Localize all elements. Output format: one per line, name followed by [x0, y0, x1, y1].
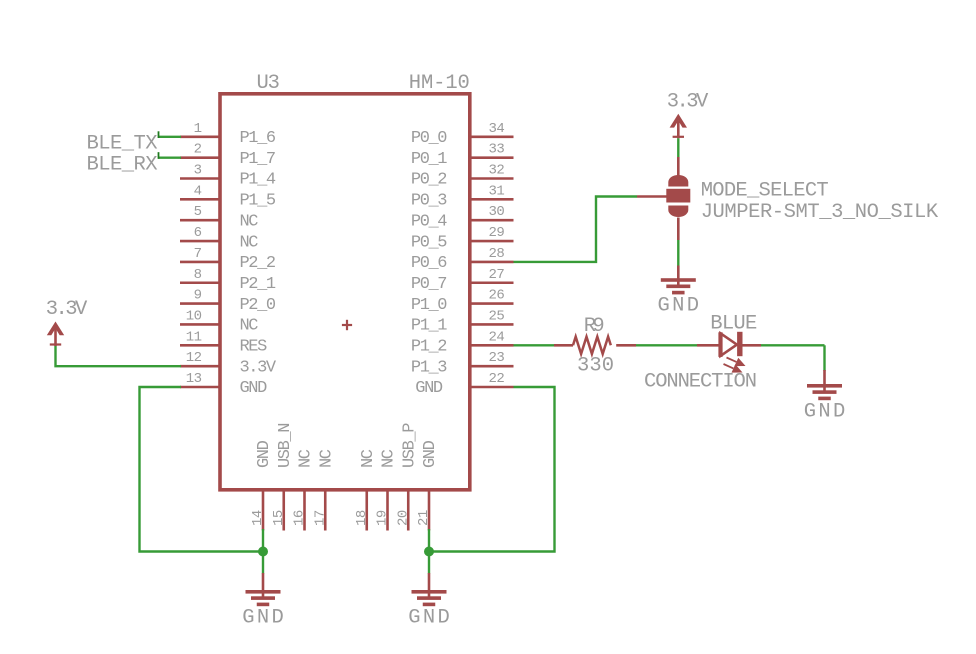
svg-text:30: 30 [489, 204, 505, 220]
svg-text:10: 10 [186, 308, 202, 324]
svg-text:NC: NC [240, 212, 259, 231]
svg-text:USB_P: USB_P [400, 423, 419, 468]
svg-text:BLE_RX: BLE_RX [87, 153, 158, 176]
svg-text:16: 16 [292, 510, 308, 526]
svg-text:MODE_SELECT: MODE_SELECT [701, 180, 829, 203]
svg-text:33: 33 [489, 142, 505, 158]
svg-text:13: 13 [186, 371, 202, 387]
svg-text:P0_0: P0_0 [411, 129, 447, 148]
svg-text:JUMPER-SMT_3_NO_SILK: JUMPER-SMT_3_NO_SILK [701, 201, 939, 224]
svg-text:GND: GND [240, 379, 268, 398]
svg-text:P1_1: P1_1 [411, 317, 447, 336]
svg-text:P1_5: P1_5 [240, 192, 276, 211]
svg-text:P2_0: P2_0 [240, 296, 276, 315]
svg-text:P0_5: P0_5 [411, 233, 447, 252]
svg-text:3.3V: 3.3V [667, 90, 709, 113]
svg-text:GND: GND [804, 401, 846, 424]
svg-text:NC: NC [240, 233, 259, 252]
svg-text:330: 330 [577, 355, 614, 378]
svg-text:26: 26 [489, 288, 505, 304]
svg-text:USB_N: USB_N [276, 424, 295, 468]
svg-text:GND: GND [408, 607, 450, 630]
svg-text:P0_1: P0_1 [411, 150, 447, 169]
svg-text:NC: NC [240, 317, 259, 336]
svg-text:3.3V: 3.3V [46, 298, 88, 321]
svg-text:P2_2: P2_2 [240, 254, 275, 273]
svg-text:34: 34 [489, 121, 505, 137]
svg-text:19: 19 [375, 510, 391, 526]
svg-text:6: 6 [194, 225, 202, 241]
svg-text:GND: GND [421, 440, 440, 468]
svg-text:21: 21 [416, 510, 432, 526]
svg-text:24: 24 [489, 329, 505, 345]
svg-text:11: 11 [186, 329, 202, 345]
svg-text:RES: RES [240, 338, 268, 357]
svg-text:BLUE: BLUE [710, 313, 757, 336]
svg-text:5: 5 [194, 204, 202, 220]
svg-text:2: 2 [194, 142, 202, 158]
svg-text:GND: GND [255, 440, 274, 468]
svg-text:U3: U3 [257, 72, 280, 95]
svg-text:3.3V: 3.3V [240, 358, 277, 377]
svg-text:P0_7: P0_7 [411, 275, 446, 294]
svg-text:GND: GND [658, 295, 700, 318]
svg-text:P0_4: P0_4 [411, 212, 447, 231]
svg-text:R9: R9 [584, 315, 605, 338]
svg-text:P1_2: P1_2 [411, 338, 446, 357]
svg-text:GND: GND [415, 379, 443, 398]
svg-text:20: 20 [395, 510, 411, 526]
svg-text:18: 18 [354, 510, 370, 526]
svg-text:4: 4 [194, 183, 202, 199]
svg-text:32: 32 [489, 163, 505, 179]
svg-text:3: 3 [194, 163, 202, 179]
svg-text:9: 9 [194, 288, 202, 304]
svg-text:17: 17 [312, 510, 328, 526]
svg-text:12: 12 [186, 350, 202, 366]
svg-text:NC: NC [380, 449, 399, 468]
svg-text:CONNECTION: CONNECTION [644, 371, 757, 394]
svg-text:P0_3: P0_3 [411, 192, 447, 211]
svg-text:7: 7 [194, 246, 202, 262]
svg-text:29: 29 [489, 225, 505, 241]
svg-text:P2_1: P2_1 [240, 275, 276, 294]
svg-text:P1_6: P1_6 [240, 129, 276, 148]
svg-text:23: 23 [489, 350, 505, 366]
svg-text:P1_0: P1_0 [411, 296, 447, 315]
svg-text:15: 15 [271, 510, 287, 526]
svg-text:28: 28 [489, 246, 505, 262]
svg-text:BLE_TX: BLE_TX [87, 133, 158, 156]
svg-text:22: 22 [489, 371, 505, 387]
svg-text:14: 14 [250, 510, 266, 526]
svg-text:P0_2: P0_2 [411, 171, 446, 190]
svg-text:P1_4: P1_4 [240, 171, 276, 190]
svg-text:1: 1 [194, 121, 202, 137]
svg-text:HM-10: HM-10 [409, 72, 470, 95]
svg-text:P0_6: P0_6 [411, 254, 447, 273]
svg-text:25: 25 [489, 308, 505, 324]
svg-text:NC: NC [297, 449, 316, 468]
svg-text:31: 31 [489, 183, 505, 199]
svg-text:27: 27 [489, 267, 505, 283]
svg-text:NC: NC [317, 449, 336, 468]
svg-text:P1_7: P1_7 [240, 150, 275, 169]
svg-text:P1_3: P1_3 [411, 358, 447, 377]
svg-text:NC: NC [359, 449, 378, 468]
svg-text:GND: GND [242, 607, 284, 630]
svg-text:8: 8 [194, 267, 202, 283]
